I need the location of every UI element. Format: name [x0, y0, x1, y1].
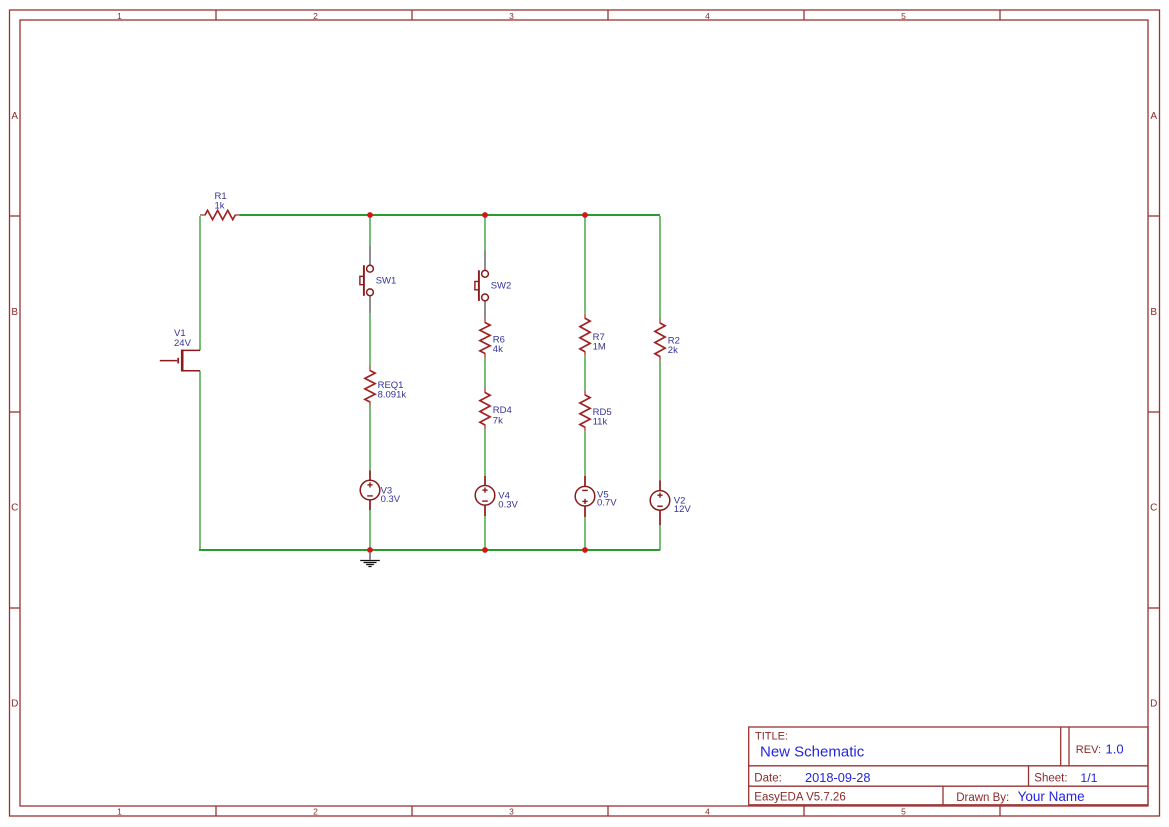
REV value 1.0	[1106, 742, 1124, 757]
wire R7 to RD5	[584, 356, 586, 391]
svg-text:B: B	[1150, 307, 1157, 318]
wire top horizontal net	[240, 214, 661, 216]
voltage source V5	[575, 476, 595, 517]
label RD4 7k	[493, 405, 512, 426]
svg-text:0.3V: 0.3V	[381, 494, 401, 505]
frame row letters A-D	[11, 111, 1157, 710]
svg-text:New Schematic: New Schematic	[760, 743, 865, 760]
svg-text:5: 5	[901, 807, 906, 817]
junction node V3 bottom / ground	[367, 547, 373, 553]
svg-text:0.7V: 0.7V	[597, 498, 617, 509]
svg-text:2018-09-28: 2018-09-28	[805, 770, 870, 785]
wire R2 to V2	[659, 361, 661, 481]
label R7 1M	[593, 332, 606, 353]
label V2 12V	[674, 496, 692, 515]
wire R6 to RD4	[484, 358, 486, 389]
Drawn By label	[956, 792, 1009, 804]
svg-text:7k: 7k	[493, 416, 503, 427]
junction node SW1 top	[367, 212, 373, 218]
title block grid	[749, 727, 1148, 805]
voltage source V3	[360, 471, 380, 511]
wire RD5 to V5	[584, 431, 586, 476]
svg-text:RD4: RD4	[493, 405, 512, 416]
resistor RD4	[480, 388, 490, 429]
wire V4 to bottom net	[484, 516, 486, 550]
voltage source V1 symbol	[160, 350, 200, 372]
junction node SW2 top	[482, 212, 488, 218]
wire col R2 top	[659, 216, 661, 319]
label REQ1 8.091k	[378, 380, 407, 401]
EasyEDA version text	[754, 792, 845, 804]
label V3 0.3V	[381, 486, 401, 505]
wire left vertical from R1 corner to V1	[199, 216, 201, 350]
resistor R6	[480, 318, 490, 358]
Date label	[754, 773, 782, 785]
svg-text:4: 4	[705, 11, 710, 21]
wire SW1 to REQ1	[369, 313, 371, 366]
label V1 24V	[174, 328, 192, 349]
frame column numbers 1-5	[117, 11, 906, 817]
voltage source V4	[475, 476, 495, 516]
resistor RD5	[580, 390, 590, 431]
svg-text:Date:: Date:	[754, 773, 782, 785]
svg-text:TITLE:: TITLE:	[755, 731, 788, 743]
svg-text:1: 1	[117, 11, 122, 21]
svg-text:1k: 1k	[215, 201, 225, 212]
svg-text:24V: 24V	[174, 338, 192, 349]
wire col SW1 top	[369, 216, 371, 245]
svg-text:3: 3	[509, 11, 514, 21]
resistor R2	[655, 319, 665, 361]
wire V5 to bottom net	[584, 517, 586, 550]
svg-text:SW1: SW1	[376, 275, 397, 286]
resistor R7	[580, 314, 590, 356]
Drawn By value Your Name	[1018, 789, 1085, 804]
label V5 0.7V	[597, 489, 617, 508]
svg-text:C: C	[11, 503, 18, 514]
junction node V5 bottom	[582, 547, 588, 553]
REV label	[1076, 744, 1101, 756]
junction node R7 top	[582, 212, 588, 218]
svg-text:1: 1	[117, 807, 122, 817]
Sheet value 1/1	[1080, 771, 1097, 785]
svg-text:3: 3	[509, 807, 514, 817]
svg-text:Drawn By:: Drawn By:	[956, 792, 1009, 804]
svg-text:REV:: REV:	[1076, 744, 1101, 756]
svg-text:0.3V: 0.3V	[498, 500, 518, 511]
svg-text:A: A	[11, 111, 18, 122]
wire REQ1 to V3	[369, 406, 371, 471]
wire V3 to bottom net	[369, 510, 371, 550]
title text New Schematic	[760, 743, 865, 760]
label V4 0.3V	[498, 490, 518, 510]
svg-text:SW2: SW2	[491, 280, 512, 291]
svg-text:1/1: 1/1	[1080, 771, 1097, 785]
resistor REQ1	[365, 366, 375, 406]
wire bottom horizontal net	[199, 549, 660, 551]
svg-text:A: A	[1150, 111, 1157, 122]
label R2 2k	[668, 336, 680, 357]
svg-text:1M: 1M	[593, 342, 606, 353]
svg-text:D: D	[1150, 698, 1157, 709]
wire col SW2 top	[484, 216, 486, 251]
svg-text:5: 5	[901, 11, 906, 21]
resistor R1	[200, 210, 240, 219]
svg-text:1.0: 1.0	[1106, 742, 1124, 757]
wire col R7 top	[584, 216, 586, 314]
voltage source V2	[650, 480, 670, 525]
svg-text:2: 2	[313, 807, 318, 817]
junction node V4 bottom	[482, 547, 488, 553]
svg-text:Your Name: Your Name	[1018, 789, 1085, 804]
svg-text:EasyEDA V5.7.26: EasyEDA V5.7.26	[754, 792, 845, 804]
svg-text:2k: 2k	[668, 345, 678, 356]
ground	[360, 552, 380, 567]
title block TITLE label	[755, 731, 788, 743]
Sheet label	[1034, 773, 1067, 785]
wire left vertical from V1 to bottom corner	[199, 371, 201, 550]
Date value 2018-09-28	[805, 770, 870, 785]
svg-text:12V: 12V	[674, 504, 692, 515]
wire RD4 to V4	[484, 429, 486, 476]
switch SW2	[475, 251, 511, 319]
svg-text:B: B	[11, 307, 18, 318]
label R1 1k	[215, 191, 227, 212]
svg-text:D: D	[11, 698, 18, 709]
wire V2 to bottom net	[659, 525, 661, 550]
svg-text:8.091k: 8.091k	[378, 390, 407, 401]
svg-text:4k: 4k	[493, 344, 503, 355]
svg-text:Sheet:: Sheet:	[1034, 773, 1067, 785]
svg-text:4: 4	[705, 807, 710, 817]
label R6 4k	[493, 335, 505, 356]
svg-text:2: 2	[313, 11, 318, 21]
switch SW1	[360, 245, 396, 313]
label RD5 11k	[593, 407, 612, 428]
svg-text:11k: 11k	[593, 416, 608, 427]
svg-text:C: C	[1150, 503, 1157, 514]
